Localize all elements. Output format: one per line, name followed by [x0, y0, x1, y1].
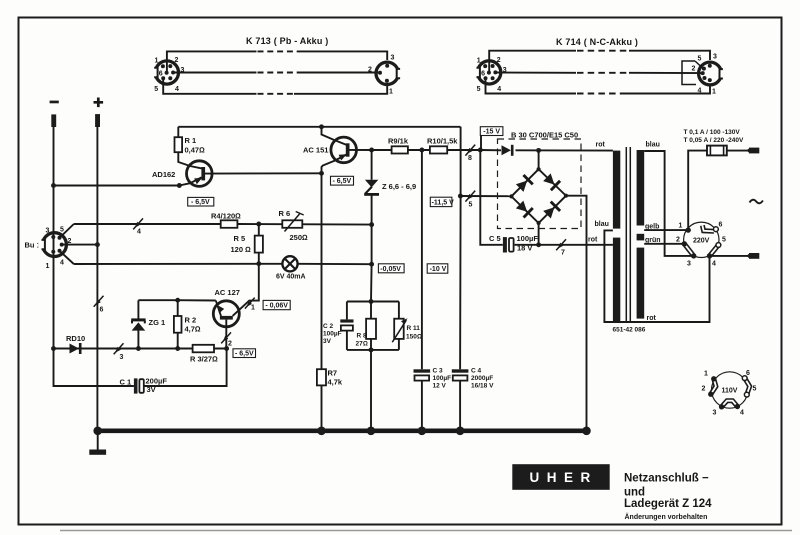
- capacitor C3: [414, 369, 431, 372]
- selector 220V: [684, 222, 719, 257]
- node ZG1 bottom junction: [136, 346, 141, 351]
- switch arrow 1: [245, 298, 255, 309]
- svg-text:4,7Ω: 4,7Ω: [185, 325, 201, 334]
- svg-text:R 11: R 11: [407, 325, 421, 332]
- node AC127 base junction: [224, 346, 229, 351]
- wire Bu1 pin5 lead: [60, 224, 74, 238]
- svg-text:C 2: C 2: [323, 323, 334, 330]
- wire AC151 collector lead: [322, 127, 347, 145]
- wire ground bus: [97, 428, 588, 433]
- wire zener vertical lamp-row to network: [370, 225, 373, 302]
- svg-text:18 V: 18 V: [517, 244, 532, 253]
- zener diode ZG1: [137, 300, 139, 348]
- connector K713 left plug: [155, 61, 178, 84]
- svg-text:rot: rot: [647, 315, 657, 322]
- svg-text:250Ω: 250Ω: [290, 233, 309, 242]
- svg-text:4,7k: 4,7k: [328, 378, 343, 387]
- resistor R9: [392, 146, 408, 153]
- svg-text:4: 4: [175, 86, 179, 93]
- node pin2/plus junction: [95, 242, 100, 247]
- svg-text:ZG 1: ZG 1: [149, 318, 166, 327]
- wire top rail: [178, 126, 460, 128]
- node zener bottom junction: [369, 222, 374, 227]
- resistor R7: [317, 369, 326, 385]
- svg-text:5: 5: [698, 56, 702, 63]
- terminal (bottom mains): [746, 253, 750, 259]
- bridge diode top-right: [542, 173, 560, 191]
- selector 220V link 6: [702, 225, 714, 231]
- svg-text:und: und: [624, 487, 645, 499]
- svg-text:- 0,06V: - 0,06V: [265, 303, 288, 310]
- svg-text:C 3: C 3: [433, 368, 444, 375]
- bracket rect on K714 right plug: [682, 61, 702, 85]
- wire R5 branch: [258, 224, 260, 264]
- wire bridge plus to bus: [566, 196, 587, 429]
- potentiometer R11: [398, 302, 400, 350]
- wire AC127 emitter lead: [216, 301, 221, 317]
- resistor R1: [175, 137, 183, 152]
- wire fuse row: [688, 151, 747, 231]
- svg-text:R 2: R 2: [185, 316, 197, 325]
- svg-text:2: 2: [228, 341, 232, 348]
- svg-text:100µF: 100µF: [433, 375, 452, 382]
- svg-text:-15 V: -15 V: [483, 129, 500, 136]
- wire K714 top line: [489, 51, 710, 73]
- wire blau left tap: [604, 230, 709, 322]
- svg-text:3: 3: [181, 67, 185, 74]
- svg-text:- 6,5V: - 6,5V: [191, 199, 210, 206]
- wire AD162 emitter row: [54, 185, 180, 187]
- svg-text:5: 5: [469, 202, 473, 209]
- resistor R4: [221, 220, 238, 228]
- node AD162 emitter junction: [177, 183, 182, 188]
- svg-text:R9/1k: R9/1k: [388, 137, 409, 146]
- node zener top junction: [369, 148, 374, 153]
- fuse: [707, 146, 727, 156]
- wire bridge bottom vertical: [538, 223, 540, 245]
- svg-text:R 6: R 6: [279, 209, 291, 218]
- plus terminal: [94, 98, 104, 108]
- winding primary mid bar: [637, 234, 645, 241]
- bridge diode top-left: [515, 175, 533, 193]
- wire pin4 output row: [710, 255, 748, 257]
- selector 220V pins: [686, 227, 691, 232]
- diode RD10: [70, 344, 80, 354]
- svg-text:100µF: 100µF: [517, 234, 539, 243]
- svg-text:Netzanschluß −: Netzanschluß −: [624, 473, 709, 485]
- svg-text:rot: rot: [588, 237, 598, 244]
- svg-text:1: 1: [679, 223, 683, 230]
- node R5 bottom junction: [256, 261, 261, 266]
- node bridge vertices: [537, 167, 541, 171]
- svg-text:2: 2: [368, 67, 372, 74]
- svg-text:R7: R7: [328, 369, 338, 378]
- svg-text:3: 3: [503, 67, 507, 74]
- svg-text:K 714 ( N-C-Akku ): K 714 ( N-C-Akku ): [556, 37, 638, 47]
- wire primary blau top tap: [644, 151, 694, 256]
- svg-text:2: 2: [175, 57, 179, 64]
- switch arrow 8: [465, 145, 475, 156]
- svg-text:3V: 3V: [323, 338, 332, 345]
- svg-text:4: 4: [698, 88, 702, 95]
- connector K713 right plug: [376, 62, 398, 84]
- svg-text:blau: blau: [646, 142, 660, 149]
- wire AC151 emitter lead: [322, 155, 347, 174]
- wire AC127 base lead: [225, 320, 227, 349]
- connector K714 left plug: [478, 61, 501, 84]
- resistor R3: [193, 345, 214, 353]
- selector 220V link 4-5: [710, 245, 719, 256]
- selector 110V link 3-4: [722, 401, 738, 407]
- wire C3 rail: [421, 150, 423, 429]
- svg-text:27Ω: 27Ω: [356, 341, 368, 348]
- svg-text:3: 3: [391, 55, 395, 62]
- svg-text:4: 4: [712, 261, 716, 268]
- svg-text:Ladegerät Z 124: Ladegerät Z 124: [624, 498, 712, 510]
- wire bridge minus row: [460, 195, 511, 197]
- svg-text:5: 5: [154, 86, 158, 93]
- wire K713 middle line: [173, 72, 381, 74]
- resistor R5: [255, 236, 263, 253]
- svg-text:3: 3: [713, 410, 717, 417]
- svg-text:K 713 ( Pb - Akku ): K 713 ( Pb - Akku ): [246, 36, 328, 46]
- svg-text:Z 6,6 - 6,9: Z 6,6 - 6,9: [382, 182, 416, 191]
- connector K714 right plug: [699, 62, 722, 85]
- label -6,5V box (R3): [233, 349, 256, 358]
- node AC151 collector junction: [319, 124, 324, 129]
- svg-text:2: 2: [692, 66, 696, 73]
- svg-text:R 1: R 1: [185, 136, 197, 145]
- wire RD10 row: [54, 348, 227, 350]
- resistor R2: [177, 300, 179, 348]
- svg-text:2000µF: 2000µF: [471, 375, 493, 382]
- node switch8 junction: [478, 148, 483, 153]
- svg-text:150Ω: 150Ω: [406, 334, 422, 341]
- svg-text:5: 5: [60, 227, 64, 234]
- wire plus vertical: [96, 124, 98, 429]
- node R2 bottom junction: [175, 346, 180, 351]
- minus terminal: [50, 101, 59, 104]
- node network bottom junction: [369, 347, 374, 352]
- wire -15V stub: [480, 136, 482, 151]
- svg-text:6: 6: [481, 70, 485, 77]
- wire K713 top line: [167, 51, 387, 72]
- svg-text:4: 4: [497, 86, 501, 93]
- wire pin5 row: [74, 223, 372, 226]
- svg-text:3: 3: [713, 54, 717, 61]
- lamp 6V 40mA: [282, 256, 297, 271]
- page edge shadow line: [60, 530, 792, 532]
- label -6,5V box (AD162): [188, 197, 214, 206]
- svg-text:6: 6: [746, 370, 750, 377]
- svg-text:1: 1: [155, 58, 159, 65]
- capacitor C1 loop: [54, 349, 227, 387]
- wire K714 middle line: [495, 72, 702, 75]
- potentiometer R6: [282, 220, 302, 228]
- svg-text:UHER: UHER: [530, 470, 598, 485]
- svg-text:6: 6: [100, 307, 104, 314]
- svg-text:100µF: 100µF: [323, 331, 342, 338]
- switch arrow 3: [114, 343, 124, 354]
- capacitor C4: [452, 369, 469, 372]
- winding primary bottom bar: [637, 248, 645, 319]
- node C4 rail top junction: [458, 194, 463, 199]
- wire top rail drop / C4 rail: [459, 127, 462, 429]
- svg-text:3: 3: [687, 261, 691, 268]
- svg-text:7: 7: [561, 250, 565, 257]
- dashed enclosure: [498, 139, 582, 229]
- svg-text:6: 6: [159, 70, 163, 77]
- wire top AC row: [480, 149, 613, 152]
- label -15V box: [480, 127, 503, 136]
- winding primary top bar: [637, 150, 645, 226]
- node C5 row junction: [536, 242, 541, 247]
- svg-text:4: 4: [60, 260, 64, 267]
- wire C5 rail: [480, 150, 613, 245]
- node lamp row right junction: [369, 262, 374, 267]
- svg-text:R10/1,5k: R10/1,5k: [427, 137, 458, 146]
- svg-text:1: 1: [712, 89, 716, 96]
- svg-text:1: 1: [477, 57, 481, 64]
- svg-text:-11,5 V: -11,5 V: [432, 200, 455, 207]
- label -11,5V box: [430, 197, 452, 206]
- capacitor C5: [503, 237, 507, 252]
- svg-text:1: 1: [389, 89, 393, 96]
- resistor R8: [370, 302, 372, 350]
- svg-text:1: 1: [46, 263, 50, 270]
- svg-text:-0,05V: -0,05V: [380, 266, 401, 273]
- wire Bu1 pin2 lead: [62, 244, 98, 246]
- svg-text:3: 3: [46, 228, 50, 235]
- svg-text:6: 6: [719, 222, 723, 229]
- svg-text:AC 151: AC 151: [303, 146, 328, 155]
- svg-text:6V 40mA: 6V 40mA: [276, 274, 306, 281]
- wire network bottom bar: [347, 349, 399, 351]
- svg-text:4: 4: [740, 410, 744, 417]
- node R9/R10 junction: [419, 148, 424, 153]
- diode feed (top): [502, 145, 512, 155]
- resistor R10: [430, 146, 447, 153]
- core lines: [626, 147, 630, 322]
- selector 220V link 2-3: [684, 244, 693, 256]
- svg-text:651-42 086: 651-42 086: [613, 327, 646, 334]
- terminal (top mains): [746, 148, 750, 154]
- svg-text:- 6,5V: - 6,5V: [235, 351, 254, 358]
- svg-text:3: 3: [120, 354, 124, 361]
- svg-text:3V: 3V: [147, 385, 156, 394]
- wire primary gelb tap: [644, 229, 688, 231]
- node R2 top junction: [175, 298, 180, 303]
- svg-text:16/18 V: 16/18 V: [471, 383, 494, 390]
- zener diode Z 6,6-6,9: [371, 150, 373, 225]
- wire R1 collector branch: [178, 127, 202, 169]
- label -10V box: [427, 264, 448, 273]
- connector Bu1 socket: [43, 233, 67, 257]
- svg-text:C 4: C 4: [471, 368, 482, 375]
- svg-text:R 8: R 8: [357, 333, 368, 340]
- wire R9/R10 row: [372, 149, 481, 151]
- AC symbol: [750, 200, 763, 204]
- ground symbol: [97, 431, 99, 450]
- node bridge top tap: [536, 148, 541, 153]
- winding secondary bottom bar: [613, 238, 620, 322]
- svg-text:RD10: RD10: [66, 334, 85, 343]
- wire minus vertical: [53, 124, 55, 349]
- switch arrow 5: [465, 191, 475, 202]
- node AC151 emitter junction: [319, 171, 324, 176]
- svg-text:B 30 C700/E15 C50: B 30 C700/E15 C50: [511, 131, 578, 140]
- svg-text:5: 5: [722, 237, 726, 244]
- switch arrow 4: [133, 218, 143, 229]
- wire AC151 emitter vertical to R7: [321, 173, 323, 429]
- wire primary gruen tap: [644, 243, 684, 245]
- wire K713 bottom line: [163, 78, 387, 94]
- wire ZG1/R2 top row: [138, 299, 215, 301]
- svg-text:12 V: 12 V: [433, 383, 447, 390]
- svg-text:AD162: AD162: [152, 170, 175, 179]
- svg-text:rot: rot: [596, 142, 606, 149]
- svg-text:2: 2: [676, 237, 680, 244]
- svg-text:1: 1: [251, 305, 255, 312]
- label -0,05V box: [378, 264, 404, 273]
- node R5 top junction: [256, 222, 261, 227]
- svg-text:- 6,5V: - 6,5V: [333, 178, 352, 185]
- svg-text:R4/120Ω: R4/120Ω: [211, 212, 241, 221]
- wire Bu1 pin4 lead: [60, 251, 74, 264]
- winding secondary top bar: [613, 151, 620, 229]
- svg-text:0,47Ω: 0,47Ω: [185, 146, 206, 155]
- wire bridge top vertical: [538, 150, 540, 169]
- node bus junctions: [93, 427, 102, 436]
- svg-text:2: 2: [497, 57, 501, 64]
- label -6,5V box (AC151): [331, 176, 354, 185]
- selector 110V link 5-6: [745, 378, 750, 395]
- wire network top bar: [347, 301, 399, 303]
- label -0,06V box: [263, 300, 290, 309]
- selector 110V pins: [711, 376, 716, 381]
- svg-text:blau: blau: [595, 221, 609, 228]
- svg-text:8: 8: [468, 155, 472, 162]
- node RD10 row left junction: [51, 346, 56, 351]
- selector 110V link 1-2: [711, 379, 716, 394]
- svg-text:T 0,05 A / 220 -240V: T 0,05 A / 220 -240V: [684, 137, 745, 144]
- UHER logo: [512, 464, 609, 490]
- wire network to bus: [370, 350, 372, 429]
- svg-text:110V: 110V: [722, 388, 738, 395]
- svg-text:T 0,1 A / 100 -130V: T 0,1 A / 100 -130V: [684, 129, 741, 136]
- svg-text:Änderungen vorbehalten: Änderungen vorbehalten: [625, 513, 708, 521]
- svg-text:220V: 220V: [693, 237, 710, 244]
- svg-text:R 5: R 5: [234, 234, 246, 243]
- switch arrow 6 (plus line): [94, 296, 104, 307]
- svg-text:2: 2: [702, 386, 706, 393]
- node network top junction: [369, 299, 374, 304]
- wire AC127 collector lead: [233, 264, 259, 316]
- wire K714 bottom line: [486, 78, 711, 93]
- svg-text:-10 V: -10 V: [430, 266, 447, 273]
- bridge diode bottom-right: [542, 202, 560, 220]
- svg-text:C 5: C 5: [489, 234, 501, 243]
- svg-text:4: 4: [137, 229, 141, 236]
- svg-text:5: 5: [477, 86, 481, 93]
- capacitor C2: [346, 302, 348, 350]
- svg-text:R 3/27Ω: R 3/27Ω: [190, 355, 218, 364]
- node minus/emitter junction: [51, 183, 56, 188]
- svg-text:120 Ω: 120 Ω: [231, 245, 252, 254]
- bridge diode bottom-left: [515, 200, 533, 218]
- switch arrow 2: [221, 332, 231, 343]
- svg-text:C 1: C 1: [120, 378, 132, 387]
- svg-text:AC 127: AC 127: [215, 288, 240, 297]
- svg-text:1: 1: [704, 371, 708, 378]
- bridge diamond wires: [511, 169, 566, 223]
- wire pin4/lamp row: [74, 263, 372, 265]
- switch arrow 7: [556, 239, 566, 250]
- svg-text:5: 5: [753, 386, 757, 393]
